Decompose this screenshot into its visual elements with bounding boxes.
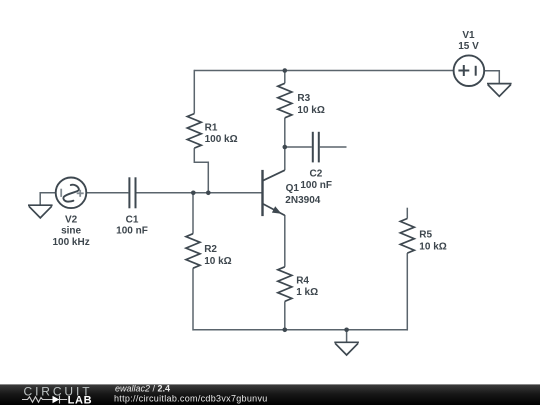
svg-text:http://circuitlab.com/cdb3vx7g: http://circuitlab.com/cdb3vx7gbunvu: [114, 394, 268, 404]
voltage source V1: [454, 55, 485, 86]
wire R3 top lead: [284, 70, 286, 84]
wire bottom rail: [193, 329, 407, 331]
svg-text:R1: R1: [205, 123, 218, 134]
node dot R4 bottom: [283, 328, 288, 333]
capacitor C2: [313, 132, 319, 163]
wire R1 top lead: [193, 70, 195, 114]
svg-text:10 kΩ: 10 kΩ: [204, 256, 231, 267]
wire V1 right to ground: [484, 71, 500, 84]
svg-text:C1: C1: [126, 215, 139, 226]
ground V1: [487, 84, 512, 97]
footer text: [114, 384, 268, 404]
svg-text:1 kΩ: 1 kΩ: [296, 287, 318, 298]
wire C2 right stub: [320, 146, 347, 148]
wire R5 bottom lead: [406, 253, 408, 330]
svg-text:R4: R4: [296, 275, 309, 286]
svg-text:100 kΩ: 100 kΩ: [205, 134, 238, 145]
resistor R1: [187, 114, 201, 149]
transistor Q1: [263, 170, 285, 216]
CircuitLab logo: [22, 384, 92, 405]
resistor R2: [186, 234, 200, 269]
capacitor C1: [129, 177, 135, 208]
node dot R3 top: [283, 68, 288, 73]
wire R4 bottom lead: [284, 301, 286, 329]
wire R2 top lead: [192, 193, 194, 234]
wire collector: [284, 147, 286, 170]
node dot base: [191, 191, 196, 196]
wire R1 bottom jog: [194, 148, 208, 193]
svg-text:R3: R3: [297, 93, 310, 104]
resistor R4: [278, 267, 292, 302]
ground V2: [28, 205, 53, 218]
footer bar: [0, 384, 540, 405]
svg-text:Q1: Q1: [286, 183, 300, 194]
wire emitter to R4: [284, 215, 286, 267]
ground bottom: [334, 342, 359, 355]
node dot collector C2: [283, 145, 288, 150]
wire C1 to base: [137, 192, 262, 194]
svg-text:ewallac2 / 2.4: ewallac2 / 2.4: [115, 384, 170, 394]
svg-text:10 kΩ: 10 kΩ: [297, 105, 324, 116]
wire ground bottom stub: [346, 330, 348, 343]
svg-text:15 V: 15 V: [458, 41, 479, 52]
svg-text:100 nF: 100 nF: [300, 180, 332, 191]
svg-text:R2: R2: [204, 244, 217, 255]
svg-text:sine: sine: [61, 226, 81, 237]
wire V2 to C1: [86, 192, 128, 194]
svg-text:C2: C2: [310, 168, 323, 179]
node dot R1 bottom: [206, 191, 211, 196]
wire R2 bottom lead: [192, 268, 194, 330]
resistor R3: [278, 83, 292, 118]
wire C2 branch: [285, 146, 312, 148]
wire top rail: [194, 70, 453, 72]
svg-text:LAB: LAB: [68, 394, 93, 405]
svg-text:100 kHz: 100 kHz: [52, 237, 89, 248]
svg-text:2N3904: 2N3904: [285, 195, 320, 206]
node dot ground bottom: [344, 328, 349, 333]
svg-text:100 nF: 100 nF: [116, 226, 148, 237]
svg-text:V1: V1: [462, 30, 475, 41]
wire V2 left to ground: [40, 193, 56, 205]
wire R3 bottom lead: [284, 118, 286, 147]
svg-text:R5: R5: [419, 230, 432, 241]
svg-text:10 kΩ: 10 kΩ: [419, 241, 446, 252]
wire R5 top stub: [406, 208, 408, 219]
voltage source V2: [56, 178, 87, 209]
resistor R5: [400, 219, 414, 254]
svg-text:V2: V2: [65, 214, 78, 225]
